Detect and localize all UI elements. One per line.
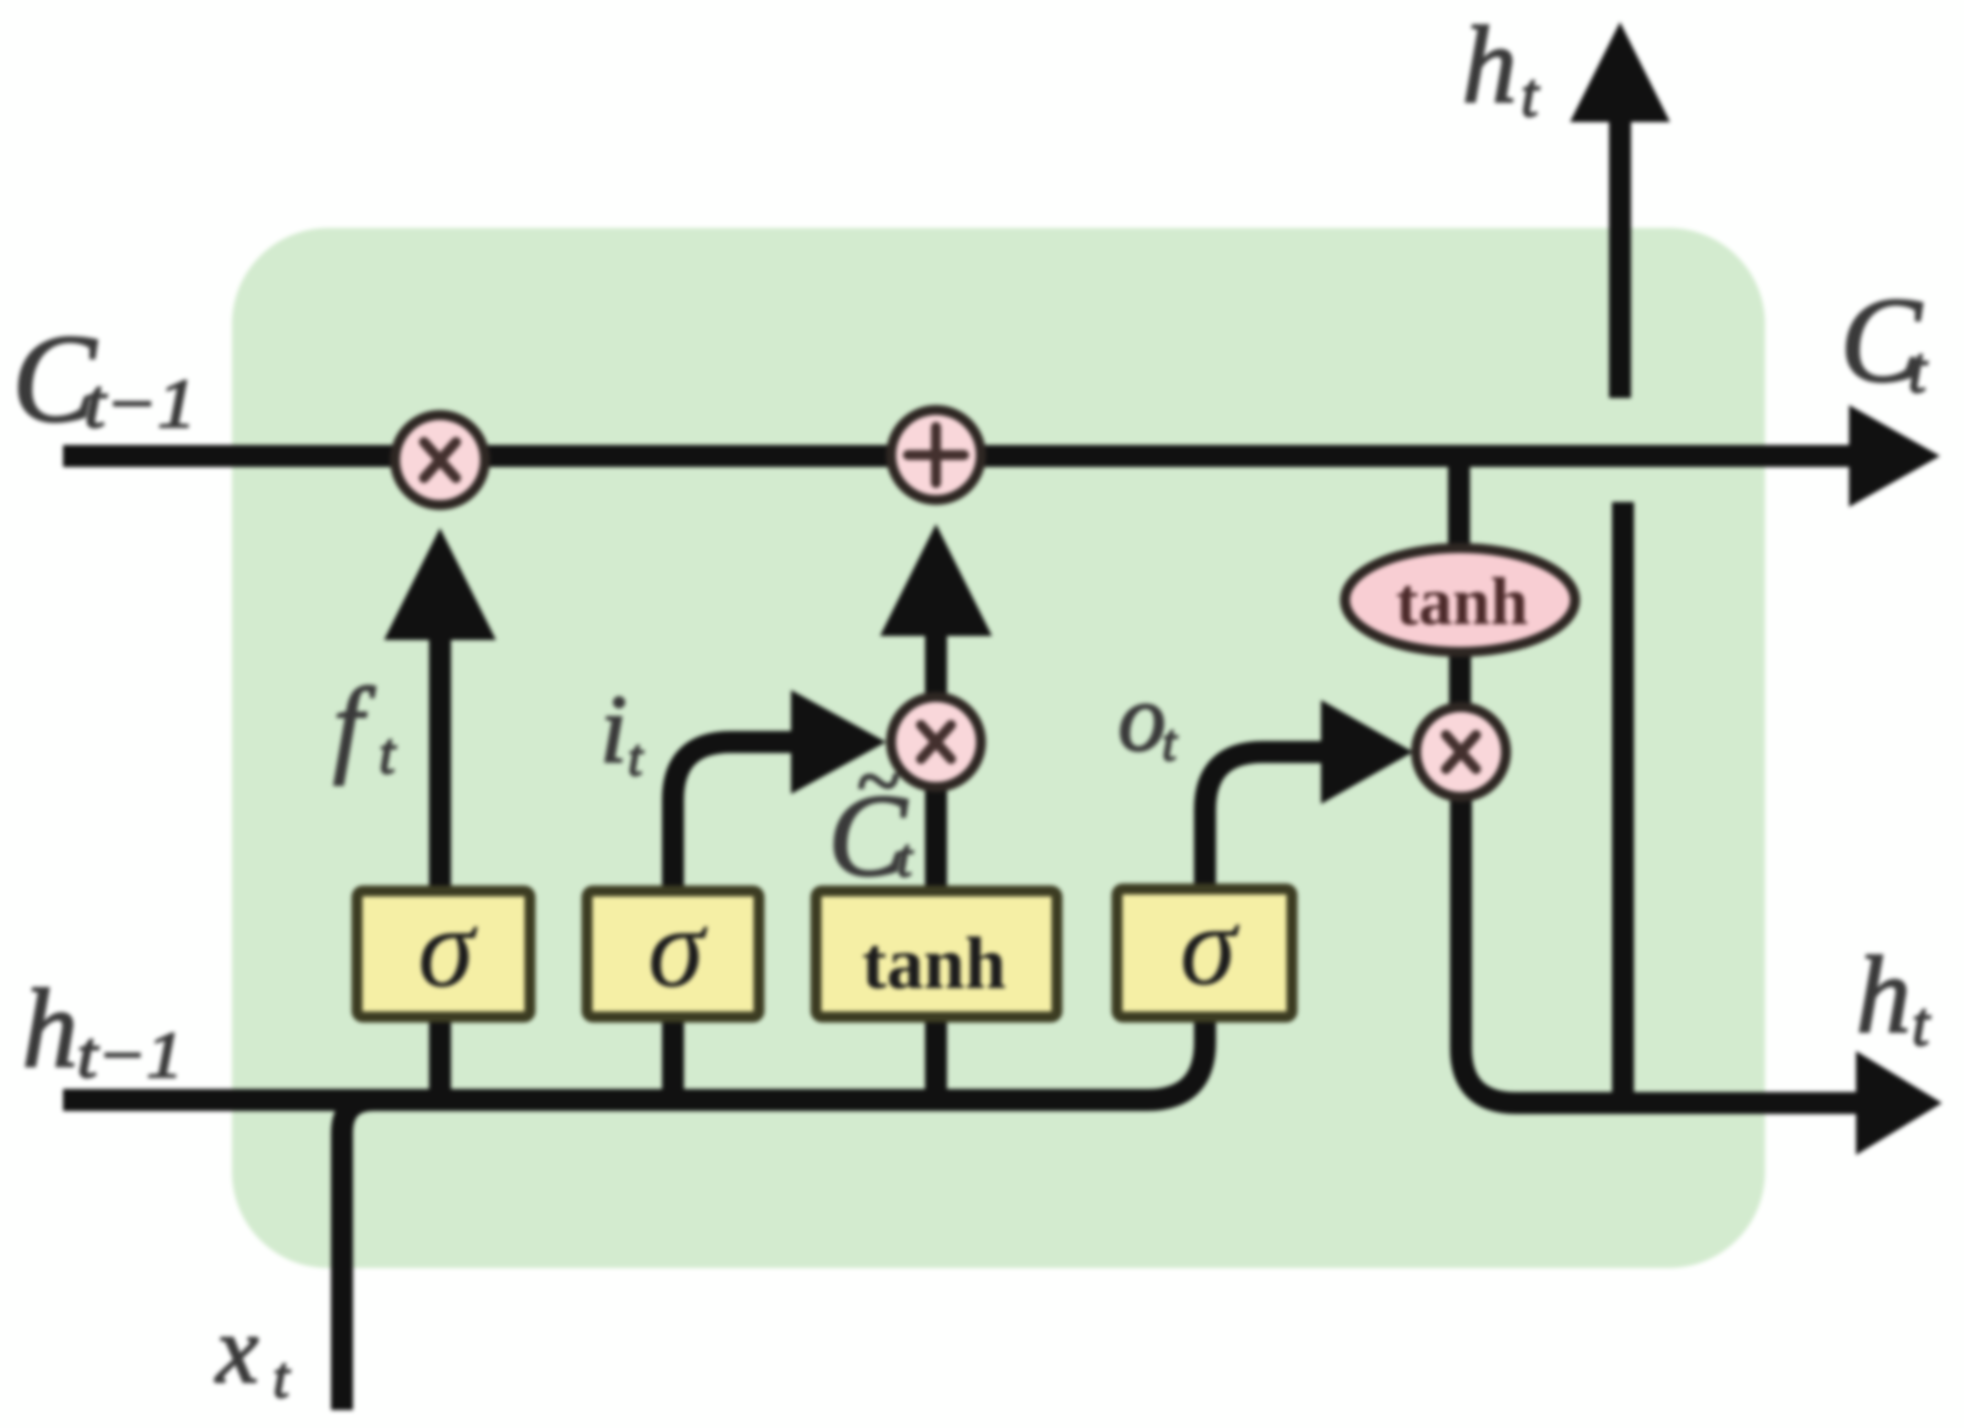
svg-text:tanh: tanh (862, 923, 1006, 1005)
svg-text:i: i (600, 676, 627, 784)
svg-text:t−1: t−1 (84, 366, 196, 443)
svg-text:h: h (1856, 934, 1911, 1056)
svg-text:t: t (1912, 991, 1931, 1059)
svg-text:h: h (22, 967, 78, 1091)
svg-text:t: t (379, 721, 397, 786)
svg-text:t: t (897, 828, 914, 888)
svg-text:t: t (1162, 715, 1178, 772)
svg-text:σ: σ (418, 884, 478, 1011)
svg-text:x: x (214, 1296, 259, 1403)
svg-text:~: ~ (856, 738, 899, 826)
svg-text:σ: σ (1180, 882, 1240, 1009)
svg-text:tanh: tanh (1396, 563, 1528, 639)
svg-text:t−1: t−1 (77, 1019, 183, 1092)
svg-text:t: t (273, 1345, 291, 1410)
svg-text:σ: σ (648, 884, 708, 1011)
svg-text:h: h (1462, 4, 1517, 126)
svg-text:t: t (1908, 334, 1928, 407)
svg-text:t: t (628, 730, 644, 787)
svg-text:t: t (1521, 62, 1540, 130)
svg-text:o: o (1118, 664, 1166, 771)
